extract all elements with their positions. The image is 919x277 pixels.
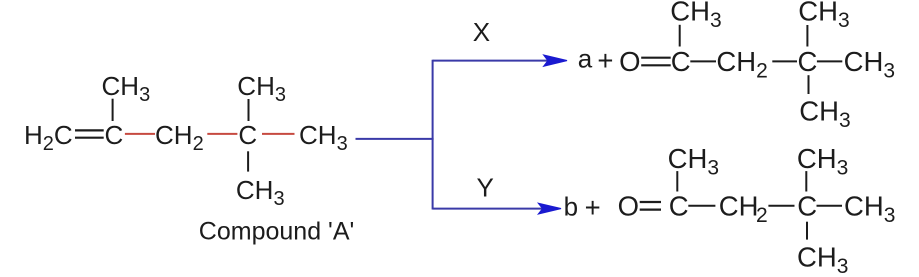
- bond C-CH3 (X): [817, 60, 842, 62]
- svg-text:CH3: CH3: [668, 143, 719, 180]
- bond C4-CH3 (red): [262, 133, 295, 135]
- svg-text:CH3: CH3: [670, 0, 721, 32]
- svg-text:CH3: CH3: [798, 0, 849, 32]
- svg-text:C: C: [671, 46, 691, 77]
- svg-text:CH3: CH3: [799, 96, 850, 133]
- svg-text:Y: Y: [477, 173, 494, 203]
- svg-text:C: C: [105, 120, 124, 150]
- bond C4 to upper CH3: [248, 99, 250, 121]
- svg-text:CH2: CH2: [155, 120, 204, 155]
- svg-text:CH3: CH3: [237, 71, 286, 106]
- bond carbonyl C to upper CH3 (Y): [676, 171, 678, 191]
- bond quaternary C to upper CH3 (Y): [805, 171, 807, 191]
- atom O (ketone Y): [618, 143, 896, 277]
- svg-text:CH3: CH3: [797, 143, 848, 180]
- svg-text:CH3: CH3: [797, 242, 848, 277]
- svg-text:C: C: [669, 191, 689, 222]
- bond quaternary C to upper CH3 (X): [806, 25, 808, 47]
- svg-text:H2C: H2C: [24, 120, 73, 155]
- svg-text:+: +: [585, 192, 601, 223]
- bond C-CH2 (Y): [688, 205, 715, 207]
- bond C1=C2 double bond: [75, 130, 104, 137]
- svg-text:CH3: CH3: [844, 46, 895, 83]
- svg-text:+: +: [597, 45, 613, 76]
- svg-text:CH3: CH3: [236, 175, 285, 210]
- bond carbonyl C to upper CH3 (X): [679, 25, 681, 47]
- arrow Y (bottom): [433, 203, 561, 214]
- bond O=C double bond (X): [641, 58, 671, 66]
- svg-text:C: C: [797, 191, 817, 222]
- bond C-CH2 (X): [690, 60, 716, 62]
- wire from compound A to branch: [356, 138, 434, 140]
- bond C4 to lower CH3: [247, 151, 249, 171]
- svg-text:O: O: [619, 46, 640, 77]
- bond C2 to upper CH3: [112, 99, 114, 121]
- svg-text:CH3: CH3: [102, 71, 151, 106]
- svg-text:X: X: [473, 17, 490, 47]
- svg-text:C: C: [798, 46, 818, 77]
- bond quaternary C to lower CH3 (X): [808, 75, 810, 94]
- bond C2-CH2 (red): [125, 133, 155, 135]
- svg-text:CH3: CH3: [299, 120, 348, 155]
- wire branch vertical: [432, 60, 434, 210]
- svg-text:C: C: [238, 120, 257, 150]
- svg-text:a: a: [578, 43, 593, 73]
- bond CH2-C4 (red): [207, 133, 237, 135]
- bond CH2-C (X): [772, 60, 797, 62]
- bond CH2-C (Y): [768, 205, 794, 207]
- svg-text:Compound 'A': Compound 'A': [199, 218, 354, 246]
- bond C-CH3 (Y): [817, 205, 843, 207]
- svg-text:CH2: CH2: [719, 191, 768, 228]
- svg-text:O: O: [618, 191, 639, 222]
- bond quaternary C to lower CH3 (Y): [806, 222, 808, 240]
- svg-text:CH2: CH2: [716, 46, 767, 83]
- bond O=C double bond (Y): [640, 202, 661, 210]
- atom O (ketone X): [619, 0, 895, 132]
- arrow X (top): [433, 55, 567, 66]
- svg-text:CH3: CH3: [844, 191, 895, 228]
- svg-text:b: b: [564, 191, 578, 221]
